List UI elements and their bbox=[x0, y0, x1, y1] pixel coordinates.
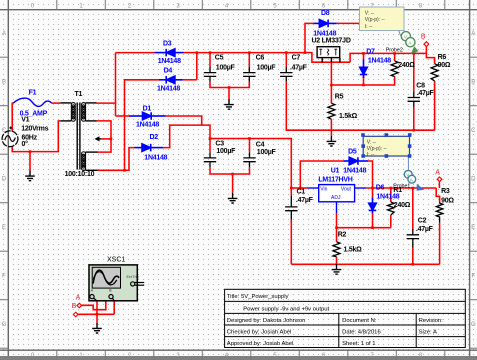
svg-text:120Vrms: 120Vrms bbox=[21, 126, 48, 133]
svg-text:240Ω: 240Ω bbox=[394, 202, 411, 209]
svg-text:Power supply -9v and +9v outpu: Power supply -9v and +9v output bbox=[243, 306, 329, 312]
svg-text:C8: C8 bbox=[416, 82, 425, 89]
svg-text:100µF: 100µF bbox=[216, 148, 236, 155]
svg-text:V: V bbox=[404, 35, 407, 40]
svg-text:D3: D3 bbox=[163, 40, 172, 47]
svg-text:V1: V1 bbox=[21, 117, 29, 124]
svg-text:T1: T1 bbox=[75, 91, 83, 98]
svg-text:G: G bbox=[471, 322, 476, 328]
svg-text:Probe2: Probe2 bbox=[386, 48, 403, 54]
svg-text:90Ω: 90Ω bbox=[441, 197, 454, 204]
svg-text:D4: D4 bbox=[164, 68, 173, 75]
svg-text:V: V bbox=[406, 173, 409, 178]
svg-text:B: B bbox=[2, 80, 6, 86]
svg-text:A: A bbox=[91, 288, 94, 293]
svg-text:Approved by: Josiah Abel: Approved by: Josiah Abel bbox=[227, 341, 293, 347]
svg-text:Revision:: Revision: bbox=[419, 318, 444, 324]
svg-text:A: A bbox=[408, 41, 411, 46]
svg-text:R6: R6 bbox=[438, 54, 447, 61]
svg-text:V(p-p): --: V(p-p): -- bbox=[365, 17, 385, 23]
svg-text:C1: C1 bbox=[297, 189, 306, 196]
svg-text:1N4148: 1N4148 bbox=[158, 58, 181, 65]
svg-text:1N4148: 1N4148 bbox=[368, 57, 391, 64]
svg-text:D5: D5 bbox=[348, 148, 357, 155]
svg-text:F: F bbox=[471, 274, 475, 280]
svg-text:1N4148: 1N4148 bbox=[144, 155, 167, 162]
svg-text:A: A bbox=[76, 294, 81, 301]
svg-text:Ext Trig: Ext Trig bbox=[127, 275, 139, 279]
svg-text:.47µF: .47µF bbox=[417, 90, 435, 97]
svg-text:U2 LM337JD: U2 LM337JD bbox=[312, 37, 351, 44]
svg-text:A: A bbox=[2, 31, 6, 37]
svg-text:C2: C2 bbox=[418, 218, 427, 225]
svg-text:C6: C6 bbox=[256, 55, 265, 62]
svg-text:B: B bbox=[109, 288, 112, 293]
svg-text:1N4148: 1N4148 bbox=[376, 194, 399, 201]
svg-text:0°: 0° bbox=[22, 140, 29, 148]
svg-text:B: B bbox=[421, 33, 426, 40]
svg-text:D: D bbox=[471, 177, 476, 183]
svg-text:100:10:10: 100:10:10 bbox=[65, 171, 95, 178]
svg-text:I: --: I: -- bbox=[367, 152, 375, 158]
svg-text:Checked by: Josiah Abel: Checked by: Josiah Abel bbox=[227, 330, 292, 336]
svg-text:R2: R2 bbox=[338, 232, 347, 239]
svg-text:D7: D7 bbox=[366, 48, 375, 55]
svg-text:R3: R3 bbox=[441, 188, 450, 195]
svg-text:1.5kΩ: 1.5kΩ bbox=[339, 113, 358, 120]
svg-text:.47µF: .47µF bbox=[296, 197, 314, 204]
svg-text:1N4148: 1N4148 bbox=[343, 167, 366, 174]
svg-text:Designed by: Dakota Johnson: Designed by: Dakota Johnson bbox=[227, 318, 306, 324]
svg-text:Date: 4/8/2016: Date: 4/8/2016 bbox=[342, 330, 381, 336]
svg-text:C: C bbox=[2, 128, 7, 134]
svg-text:C: C bbox=[471, 128, 476, 134]
svg-text:D1: D1 bbox=[143, 106, 152, 113]
svg-text:A: A bbox=[410, 178, 413, 183]
svg-text:240Ω: 240Ω bbox=[398, 62, 415, 69]
svg-text:Vin: Vin bbox=[320, 187, 327, 193]
svg-text:I: --: I: -- bbox=[365, 24, 373, 30]
svg-text:Size: A: Size: A bbox=[419, 330, 437, 336]
svg-text:C3: C3 bbox=[215, 141, 224, 148]
svg-text:1.5kΩ: 1.5kΩ bbox=[344, 247, 363, 254]
svg-text:D2: D2 bbox=[150, 134, 159, 141]
svg-text:R5: R5 bbox=[335, 93, 344, 100]
svg-text:V: --: V: -- bbox=[365, 11, 375, 17]
svg-text:XSC1: XSC1 bbox=[107, 256, 125, 263]
svg-text:A: A bbox=[471, 31, 475, 37]
svg-text:B: B bbox=[471, 80, 475, 86]
svg-text:A: A bbox=[435, 169, 440, 176]
svg-text:Sheet: 1 of 1: Sheet: 1 of 1 bbox=[342, 341, 375, 347]
svg-text:U1: U1 bbox=[331, 167, 340, 174]
svg-text:Title: 5V_Power_supply: Title: 5V_Power_supply bbox=[227, 294, 289, 300]
svg-text:100µF: 100µF bbox=[257, 64, 277, 71]
svg-text:1N4148: 1N4148 bbox=[136, 121, 159, 128]
svg-text:D: D bbox=[2, 177, 7, 183]
svg-text:Vout: Vout bbox=[341, 187, 352, 193]
svg-text:90Ω: 90Ω bbox=[438, 62, 451, 69]
svg-text:E: E bbox=[471, 225, 475, 231]
svg-text:B: B bbox=[72, 303, 77, 310]
svg-text:V: --: V: -- bbox=[367, 140, 377, 146]
svg-text:F: F bbox=[2, 274, 6, 280]
svg-text:Probe1: Probe1 bbox=[393, 184, 410, 190]
svg-text:D8: D8 bbox=[321, 10, 330, 17]
svg-text:C5: C5 bbox=[215, 55, 224, 62]
svg-text:.47µF: .47µF bbox=[290, 64, 308, 71]
svg-text:.47µF: .47µF bbox=[416, 226, 434, 233]
svg-text:1N4148: 1N4148 bbox=[313, 30, 336, 37]
svg-text:C7: C7 bbox=[292, 55, 301, 62]
svg-text:E: E bbox=[2, 225, 6, 231]
svg-text:D6: D6 bbox=[376, 184, 385, 191]
svg-text:ADJ: ADJ bbox=[331, 195, 341, 201]
svg-text:LM117HVH: LM117HVH bbox=[318, 177, 352, 184]
svg-text:Document N:: Document N: bbox=[342, 318, 377, 324]
svg-text:C4: C4 bbox=[256, 141, 265, 148]
svg-text:F1: F1 bbox=[29, 89, 37, 96]
svg-text:100µF: 100µF bbox=[216, 64, 236, 71]
svg-text:100µF: 100µF bbox=[257, 149, 277, 156]
svg-text:G: G bbox=[2, 322, 7, 328]
svg-text:1N4148: 1N4148 bbox=[157, 86, 180, 93]
